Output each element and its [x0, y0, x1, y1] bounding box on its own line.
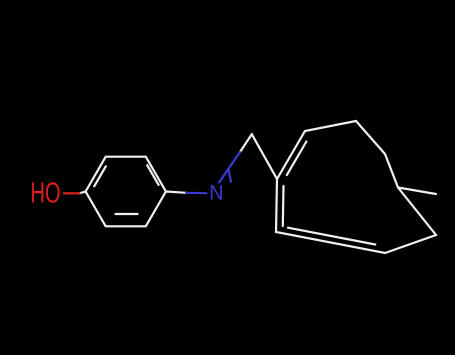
- svg-text:HO: HO: [31, 178, 61, 210]
- svg-text:N: N: [209, 182, 223, 205]
